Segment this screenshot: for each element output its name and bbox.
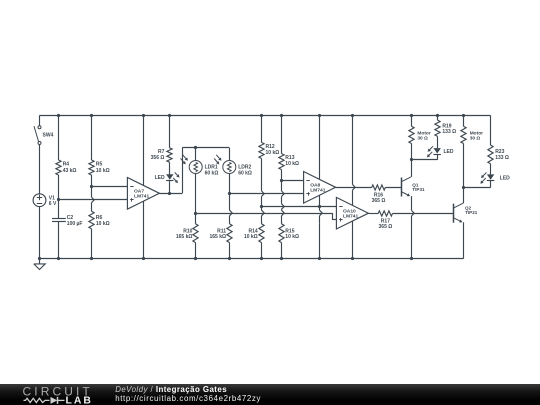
svg-text:LED: LED xyxy=(500,175,510,181)
svg-text:LED: LED xyxy=(444,149,454,155)
svg-text:10 kΩ: 10 kΩ xyxy=(96,221,110,227)
svg-text:356 Ω: 356 Ω xyxy=(151,155,165,161)
svg-text:165 kΩ: 165 kΩ xyxy=(176,234,193,240)
svg-text:133 Ω: 133 Ω xyxy=(495,155,509,161)
svg-text:LM741: LM741 xyxy=(343,214,359,220)
svg-text:10 kΩ: 10 kΩ xyxy=(285,234,299,240)
svg-text:10 kΩ: 10 kΩ xyxy=(285,161,299,167)
svg-text:LDR2: LDR2 xyxy=(238,165,251,171)
svg-text:SW4: SW4 xyxy=(43,133,54,139)
svg-text:TIP31: TIP31 xyxy=(412,187,425,192)
svg-text:10 kΩ: 10 kΩ xyxy=(244,234,258,240)
svg-text:30 Ω: 30 Ω xyxy=(417,136,428,142)
svg-text:LED: LED xyxy=(155,175,165,181)
svg-text:DeVoldy / Integração Gates: DeVoldy / Integração Gates xyxy=(115,385,227,394)
svg-text:LAB: LAB xyxy=(66,396,93,405)
svg-text:OA10: OA10 xyxy=(343,208,356,214)
svg-text:365 Ω: 365 Ω xyxy=(379,224,393,230)
svg-text:30 Ω: 30 Ω xyxy=(470,136,481,142)
svg-text:OA7: OA7 xyxy=(134,189,144,195)
svg-text:6 V: 6 V xyxy=(49,201,57,207)
svg-text:OA8: OA8 xyxy=(310,183,320,189)
svg-text:43 kΩ: 43 kΩ xyxy=(63,168,77,174)
svg-text:TIP31: TIP31 xyxy=(465,210,478,215)
svg-text:R5: R5 xyxy=(96,162,103,168)
svg-text:Motor: Motor xyxy=(417,130,430,136)
svg-text:http://circuitlab.com/c364e2rb: http://circuitlab.com/c364e2rb472zy xyxy=(115,394,261,403)
svg-text:165 kΩ: 165 kΩ xyxy=(209,234,226,240)
svg-text:LDR1: LDR1 xyxy=(205,165,218,171)
svg-text:100 µF: 100 µF xyxy=(67,221,83,227)
svg-text:LM741: LM741 xyxy=(310,188,326,194)
svg-text:60 kΩ: 60 kΩ xyxy=(238,171,252,177)
svg-text:R4: R4 xyxy=(63,162,70,168)
svg-text:60 kΩ: 60 kΩ xyxy=(205,171,219,177)
svg-text:10 kΩ: 10 kΩ xyxy=(266,150,280,156)
svg-text:133 Ω: 133 Ω xyxy=(442,129,456,135)
svg-text:10 kΩ: 10 kΩ xyxy=(96,168,110,174)
svg-text:365 Ω: 365 Ω xyxy=(372,198,386,204)
svg-text:Motor: Motor xyxy=(470,130,483,136)
svg-text:LM741: LM741 xyxy=(134,194,150,200)
